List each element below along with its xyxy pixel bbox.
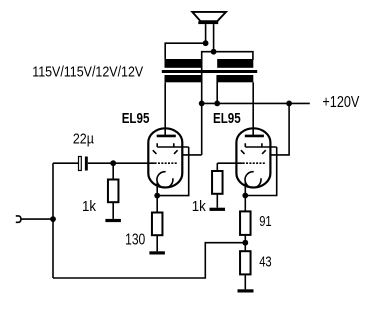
wire speaker left lead (205, 24, 207, 43)
capacitor C1 positive plate (79, 157, 82, 171)
svg-text:EL95: EL95 (122, 111, 150, 127)
resistor R5 43 body (240, 251, 251, 274)
wire primary center tap (216, 75, 218, 103)
wire R3 top to V2 grid (217, 162, 242, 164)
svg-text:115V/115V/12V/12V: 115V/115V/12V/12V (32, 63, 143, 80)
svg-text:EL95: EL95 (213, 111, 241, 127)
wire input riser (52, 163, 54, 278)
svg-text:130: 130 (125, 232, 145, 249)
node dot C (286, 101, 292, 107)
resistor R4 lead bottom (244, 235, 246, 243)
tube V1 beam plates (153, 150, 178, 154)
tube V1 control grid g1 dashed (155, 162, 178, 164)
wire bottom feedback rail (53, 243, 245, 278)
wire V2 g2 to cathode strap (245, 147, 276, 196)
wire to capacitor (53, 162, 79, 164)
resistor R5 43 lead top (244, 243, 246, 252)
ground R5 (238, 289, 254, 292)
resistor R1 1k body (108, 180, 119, 203)
transformer T1 bottom winding left (165, 75, 202, 82)
wire right primary end to V2 anode (252, 82, 254, 136)
resistor R2 130 lead top (156, 196, 158, 213)
tube V1 cathode (157, 172, 173, 188)
tube V1 screen grid g2 (157, 143, 189, 147)
transformer T1 top winding right (217, 59, 253, 68)
tube V2 control grid g1 dashed (243, 162, 266, 164)
wire +120V rail (202, 102, 310, 104)
resistor R3 1k body (212, 171, 223, 194)
tube V2 cathode (245, 172, 261, 188)
node V2 cathode junction (242, 193, 248, 199)
transformer T1 top winding left (165, 59, 202, 68)
wire dot1 to secondary left end (165, 43, 205, 59)
speaker LS1 magnet bar (198, 21, 218, 24)
node junction dot2 speaker right (211, 49, 217, 55)
ground R2 (149, 251, 165, 254)
node V1 cathode junction (154, 193, 160, 199)
resistor R3 lead bottom (216, 194, 218, 208)
node grid junction dot (110, 160, 116, 166)
resistor R4 91 body (240, 211, 251, 235)
resistor R3 1k right lead top (216, 163, 218, 171)
resistor R1 1k lead top (112, 163, 114, 179)
tube V2 screen grid g2 (245, 143, 276, 147)
speaker LS1 horn (192, 12, 226, 21)
svg-text:22µ: 22µ (73, 131, 94, 147)
tube V2 beam plates (241, 150, 266, 154)
tube V2 envelope (236, 128, 270, 187)
transformer T1 core (162, 70, 257, 73)
ground R1 (105, 219, 121, 222)
resistor R4 91 lead top (244, 196, 246, 212)
capacitor C1 negative plate (85, 157, 88, 171)
tube V1 envelope (148, 128, 182, 187)
node junction dot1 speaker left (203, 40, 209, 46)
input terminal J1 (16, 216, 21, 222)
node input junction (50, 216, 56, 222)
wire input to junction (21, 218, 53, 220)
resistor R2 130 body (152, 213, 163, 236)
svg-text:1k: 1k (82, 198, 96, 215)
svg-text:1k: 1k (192, 198, 206, 215)
svg-text:91: 91 (259, 214, 272, 230)
node R4 R5 junction (242, 240, 248, 246)
wire V1 cathode lead (156, 182, 158, 196)
transformer T1 bottom winding right (217, 75, 253, 82)
wire V1 beam plate to +120V strap (182, 154, 202, 156)
ground R3 (210, 208, 226, 211)
resistor R5 lead bottom (244, 274, 246, 289)
wire dot C down to right tube g2 strap (270, 103, 289, 154)
tube V2 anode plate (245, 135, 264, 138)
svg-text:+120V: +120V (322, 94, 360, 111)
node dot A (199, 101, 205, 107)
resistor R1 lead bottom (112, 202, 114, 219)
resistor R2 lead bottom (156, 235, 158, 251)
tube V1 anode plate (157, 135, 176, 138)
wire speaker right lead (213, 24, 215, 52)
wire capacitor to V1 grid (88, 162, 155, 164)
node dot B (214, 101, 220, 107)
svg-text:43: 43 (259, 255, 272, 271)
wire V2 cathode lead (244, 182, 246, 196)
wire secondary right end to dot2 and center tap down (202, 52, 253, 155)
wire V1 g2 to cathode strap (157, 147, 189, 196)
wire left primary end to V1 anode (164, 82, 166, 136)
